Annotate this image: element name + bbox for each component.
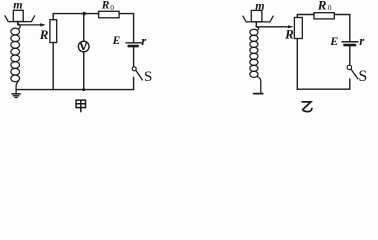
ground (left)	[12, 90, 20, 98]
resistor R (right)	[294, 18, 302, 39]
wire R bottom (right)	[296, 39, 298, 90]
resistor R (left)	[50, 20, 57, 43]
battery r label (left)	[141, 33, 147, 48]
resistor R0 (right)	[314, 13, 334, 19]
svg-text:0: 0	[110, 3, 114, 12]
wire top rail (left)	[53, 13, 98, 15]
resistor R label (right)	[284, 27, 294, 42]
wire voltmeter bottom branch	[83, 52, 85, 90]
svg-text:r: r	[141, 33, 147, 48]
switch S (right)	[347, 65, 358, 79]
svg-text:R: R	[317, 0, 327, 13]
resistor R label (left)	[39, 27, 49, 42]
wire voltmeter top branch	[83, 14, 85, 42]
resistor R0 label (right)	[317, 0, 332, 13]
wire switch to bottom (left)	[133, 77, 135, 89]
mass m label (right)	[255, 0, 264, 12]
battery r label (right)	[359, 33, 365, 48]
switch S label (right)	[358, 68, 367, 85]
wire R0 to battery corner (right)	[334, 15, 350, 41]
wire bottom rail (left)	[16, 89, 134, 91]
battery E r (right)	[342, 42, 358, 45]
svg-text:R: R	[284, 27, 294, 42]
battery E label (left)	[112, 35, 121, 47]
resistor R0 (left)	[99, 11, 120, 17]
wire switch to bottom (right)	[349, 79, 351, 89]
svg-text:S: S	[144, 69, 152, 85]
wiper arrow to R (right)	[256, 25, 293, 28]
battery E label (right)	[329, 34, 338, 48]
wire top-left from R up (left)	[52, 14, 54, 20]
svg-text:m: m	[13, 0, 22, 11]
voltmeter V (left)	[78, 41, 89, 52]
spring coil (right)	[250, 27, 261, 93]
switch S label (left)	[144, 69, 152, 85]
label 甲	[76, 100, 85, 112]
svg-text:S: S	[358, 68, 367, 85]
ground bar (right)	[254, 93, 263, 95]
wire R bottom (left)	[52, 43, 54, 90]
wire R0 to battery corner (left)	[119, 14, 134, 42]
mass block (left)	[13, 10, 23, 21]
wiper arrow to R (left)	[18, 23, 46, 26]
mass m label (left)	[13, 0, 22, 11]
platform cradle (left)	[5, 16, 35, 22]
wire battery to switch (left)	[133, 47, 135, 66]
wiper stub (left)	[17, 22, 19, 25]
svg-text:R: R	[101, 0, 110, 12]
spring coil (left)	[11, 24, 20, 90]
wire R up and top rail (right)	[297, 15, 314, 18]
switch S (left)	[132, 67, 142, 80]
battery E r (left)	[126, 43, 141, 46]
wire battery to switch (right)	[349, 46, 351, 65]
node junction bottom of voltmeter	[82, 88, 85, 91]
svg-text:E: E	[329, 34, 338, 48]
svg-text:r: r	[359, 33, 365, 48]
platform cradle (right)	[243, 16, 273, 22]
node junction top of voltmeter	[83, 12, 86, 15]
label 乙	[302, 102, 312, 112]
svg-text:0: 0	[328, 3, 332, 12]
wiper stub (right)	[255, 22, 257, 27]
mass block (right)	[251, 10, 262, 21]
svg-text:R: R	[39, 27, 49, 42]
svg-text:E: E	[112, 35, 121, 47]
wire bottom rail (right)	[297, 88, 350, 90]
resistor R0 label (left)	[101, 0, 115, 12]
